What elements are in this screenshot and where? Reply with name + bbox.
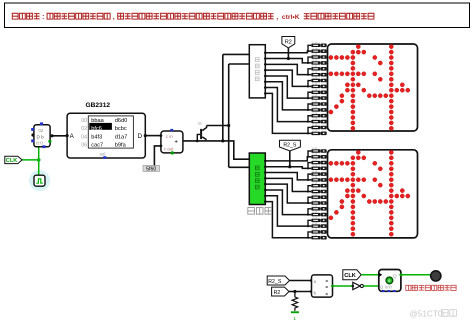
- svg-text:d6d0: d6d0: [115, 118, 127, 124]
- svg-text:R2: R2: [274, 290, 281, 296]
- svg-text:bcbc: bcbc: [115, 126, 127, 132]
- svg-text:+: +: [174, 138, 178, 145]
- svg-text:=: =: [325, 285, 328, 290]
- svg-text:c in: c in: [166, 134, 173, 139]
- svg-text:c out: c out: [164, 146, 174, 151]
- svg-text:04: 04: [81, 134, 87, 140]
- svg-text:00: 00: [81, 118, 87, 124]
- svg-text:GB2312: GB2312: [86, 102, 111, 109]
- svg-text:02: 02: [39, 128, 44, 133]
- svg-text:bfc6: bfc6: [91, 126, 102, 132]
- svg-text:R2: R2: [285, 39, 292, 45]
- svg-text:R2_S: R2_S: [283, 142, 297, 148]
- svg-text:b9fa: b9fa: [115, 142, 127, 148]
- svg-text::: :: [42, 14, 44, 21]
- svg-text:Q: Q: [380, 285, 384, 290]
- svg-text:ctrl•K: ctrl•K: [282, 14, 300, 21]
- svg-text:02: 02: [81, 126, 87, 132]
- svg-text:en0: en0: [385, 285, 393, 290]
- svg-text:,: ,: [276, 14, 278, 21]
- svg-text:Q: Q: [393, 274, 397, 280]
- svg-text:>: >: [325, 278, 328, 283]
- svg-text:,: ,: [113, 14, 115, 21]
- svg-text:d1a7: d1a7: [115, 134, 127, 140]
- svg-text:06: 06: [81, 142, 87, 148]
- svg-text:ct 0: ct 0: [36, 140, 43, 145]
- svg-text:1B: 1B: [198, 121, 203, 125]
- svg-text:5f60: 5f60: [146, 166, 156, 172]
- svg-text:@51CTO: @51CTO: [410, 310, 445, 319]
- svg-text:CLK: CLK: [344, 273, 356, 279]
- svg-text:1: 1: [293, 316, 296, 322]
- svg-text:sel: sel: [100, 151, 106, 156]
- svg-text:cac7: cac7: [91, 142, 103, 148]
- svg-text:CLK: CLK: [6, 158, 17, 164]
- svg-text:<: <: [325, 291, 328, 296]
- svg-text:D: D: [138, 133, 143, 140]
- svg-text:D b: D b: [37, 134, 45, 139]
- svg-text:bbaa: bbaa: [91, 118, 104, 124]
- svg-text:b4f3: b4f3: [91, 134, 102, 140]
- svg-text:R2_S: R2_S: [268, 279, 282, 285]
